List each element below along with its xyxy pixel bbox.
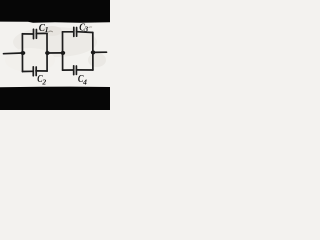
svg-text:2: 2 [41, 78, 46, 87]
svg-text:3: 3 [83, 25, 88, 34]
svg-text:1: 1 [45, 25, 49, 34]
svg-text:4: 4 [82, 77, 87, 86]
